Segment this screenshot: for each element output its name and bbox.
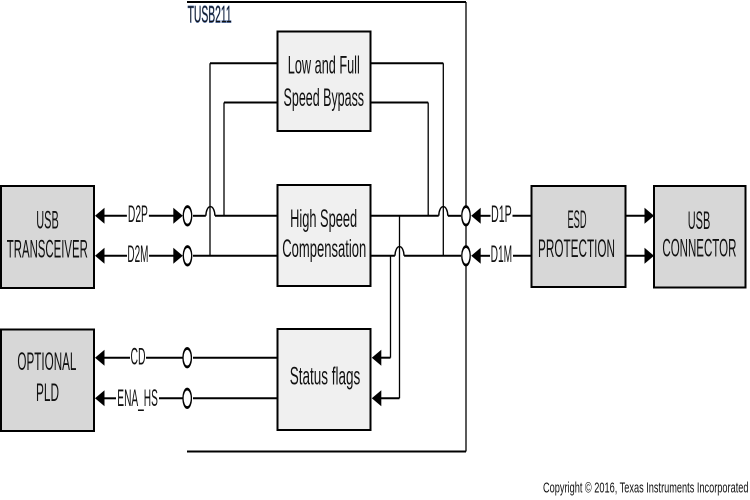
- svg-text:Compensation: Compensation: [282, 236, 366, 264]
- svg-text:Speed Bypass: Speed Bypass: [284, 85, 365, 113]
- svg-text:TRANSCEIVER: TRANSCEIVER: [7, 236, 88, 264]
- svg-text:Status flags: Status flags: [290, 363, 361, 391]
- svg-text:CD: CD: [131, 344, 146, 370]
- svg-text:High Speed: High Speed: [290, 206, 357, 234]
- svg-text:USB: USB: [36, 207, 59, 235]
- svg-text:Low and Full: Low and Full: [288, 52, 360, 80]
- svg-text:PROTECTION: PROTECTION: [538, 236, 615, 264]
- svg-text:CONNECTOR: CONNECTOR: [662, 235, 736, 263]
- svg-text:ESD: ESD: [568, 207, 587, 235]
- svg-text:OPTIONAL: OPTIONAL: [17, 349, 76, 377]
- svg-text:ENA_HS: ENA_HS: [117, 386, 158, 412]
- svg-text:D2P: D2P: [128, 202, 148, 228]
- svg-text:Copyright © 2016, Texas Instru: Copyright © 2016, Texas Instruments Inco…: [543, 478, 749, 496]
- svg-text:TUSB211: TUSB211: [188, 3, 232, 29]
- svg-text:USB: USB: [688, 208, 711, 236]
- svg-text:D2M: D2M: [127, 242, 148, 268]
- svg-text:D1P: D1P: [491, 202, 512, 228]
- svg-text:PLD: PLD: [36, 380, 59, 408]
- svg-text:D1M: D1M: [491, 242, 513, 268]
